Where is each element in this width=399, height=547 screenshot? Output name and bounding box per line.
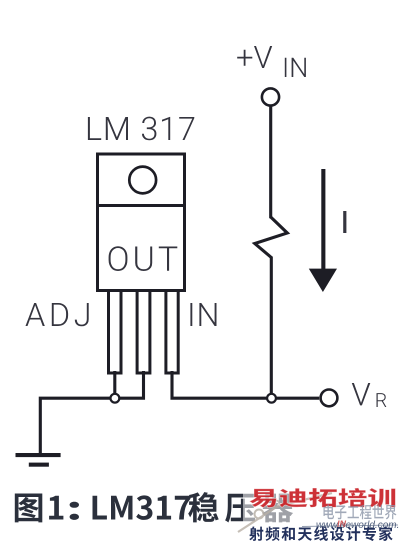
wire pin1 down to node A [113, 371, 116, 398]
wire node B to VR terminal [272, 397, 320, 400]
watermark logo swoosh (gray) [238, 493, 332, 532]
label "+VIN" [237, 46, 306, 77]
watermark url www.eeworld.com.cn [302, 519, 399, 531]
watermark gray text 电子工程世界 [324, 505, 397, 520]
label "IN" (pin 3) [190, 303, 216, 326]
wire +VIN terminal down to break [269, 106, 272, 219]
label "LM 317" (device name) [88, 117, 194, 141]
U1 mounting hole [129, 167, 156, 194]
terminal VR [321, 390, 338, 407]
wire node A to ground drop [40, 398, 115, 454]
pin 1 lead (ADJ) [109, 291, 122, 374]
wire pin3 elbow to node B [172, 371, 272, 398]
watermark navy text 射频和天线设计专家 [249, 526, 392, 541]
watermark background haze [243, 485, 399, 530]
U1 tab separator line [96, 204, 186, 207]
watermark red text 易迪拓培训 [249, 488, 395, 508]
caption "图1: LM317稳压器" [15, 492, 293, 522]
pin 3 lead (IN) [166, 291, 178, 374]
regulator U1 LM317 package outline (TO-220) [98, 154, 185, 291]
terminal +VIN [262, 88, 279, 105]
current arrow I [309, 169, 337, 292]
pin 2 lead (OUT) [137, 291, 150, 374]
ground symbol [16, 453, 61, 467]
label "ADJ" (pin 1) [26, 303, 89, 326]
label "I" (current) [343, 211, 346, 233]
label "OUT" (U1 marking) [109, 246, 178, 271]
wire break down to node B [270, 257, 273, 399]
wire pin2 elbow to node A [119, 371, 144, 398]
node A (pin1/pin2/ground junction) [111, 394, 120, 403]
node B (IN line junction) [267, 394, 276, 403]
U1 package bottom edge (redrawn over pin tops) [96, 289, 186, 292]
wire break (interruption) symbol [255, 217, 287, 258]
label "VR" [352, 383, 387, 407]
